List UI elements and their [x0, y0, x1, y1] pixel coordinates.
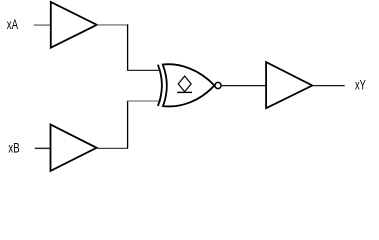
svg-text:xY: xY	[355, 77, 366, 93]
inversion bubble on U3 output	[215, 82, 221, 88]
buffer U4 (output buffer)	[266, 62, 312, 108]
svg-text:xB: xB	[8, 140, 19, 156]
svg-text:xA: xA	[7, 16, 19, 32]
wire bubble to output buffer	[221, 85, 266, 87]
open-drain symbol underline	[177, 91, 192, 93]
wire U1 output horizontal	[97, 24, 128, 26]
wire xA input stub	[34, 24, 51, 26]
wire U2 output horizontal	[97, 147, 128, 149]
wire U1 output vertical drop	[127, 24, 129, 70]
wire U2 output vertical rise	[127, 101, 129, 149]
open-drain diamond symbol inside U3	[178, 76, 191, 92]
buffer U1 (xA input buffer)	[51, 2, 97, 48]
wire xB input stub	[35, 147, 51, 149]
buffer U2 (xB input buffer)	[51, 125, 97, 171]
XNOR gate U3 body	[163, 64, 215, 106]
wire into XNOR top input	[127, 69, 160, 71]
wire into XNOR bottom input	[127, 100, 161, 102]
XNOR gate U3 input-side outer arc	[158, 65, 162, 106]
wire U4 output to xY	[312, 85, 344, 87]
